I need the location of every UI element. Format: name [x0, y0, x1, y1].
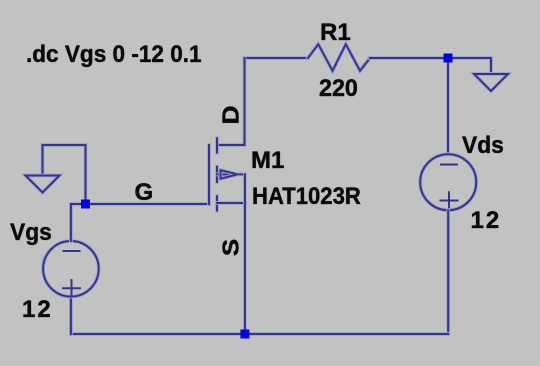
label R1 [320, 21, 351, 45]
label Vgs [10, 221, 52, 245]
wire: gate node to M1 gate (net G) [86, 202, 210, 206]
label M1 [251, 149, 284, 173]
node junction (M1 source / bottom rail) [240, 330, 249, 339]
wire: drain lead from top rail down to M1 (pin D) [218, 58, 245, 145]
wire: resistor R1 right lead to node junction [370, 56, 448, 60]
transistor M1 (P-MOSFET symbol) [209, 138, 245, 210]
value label 12 (Vgs) [22, 298, 53, 322]
wire: M1 source lead down to bottom rail (pin S) [243, 174, 247, 334]
voltage source Vgs (circle with - top, + bottom) [43, 241, 99, 297]
pin label S (rotated) [224, 239, 238, 255]
resistor R1 (zigzag body) [308, 44, 370, 71]
voltage source Vds (circle with - top, + bottom) [420, 154, 476, 210]
node junction (R1 / Vds / ground) [444, 54, 453, 63]
wire: bottom rail up to Vgs bottom pin [69, 297, 73, 334]
value label 220 [319, 77, 358, 101]
label Vds [462, 134, 504, 158]
ground (top right) [474, 74, 508, 91]
wire: Vds bottom pin down to bottom rail corner [446, 210, 450, 334]
net label G [135, 181, 154, 205]
wire: node down to Vds top pin [446, 58, 450, 154]
wire: Vgs top pin up and jog right to gate node [71, 204, 86, 241]
value label 12 (Vds) [471, 209, 502, 233]
wire: node to right ground stub [448, 58, 491, 74]
wire: bottom rail [71, 332, 448, 336]
wire: gate node up to left ground stub [43, 145, 86, 204]
spice directive .dc Vgs 0 -12 0.1 [26, 43, 202, 67]
ground (left) [26, 176, 60, 193]
wire: top rail from D corner to resistor R1 left lead [245, 56, 309, 60]
node junction (Vgs / ground / gate G) [81, 200, 90, 209]
value label HAT1023R [252, 185, 361, 209]
pin label D (rotated) [224, 106, 239, 124]
